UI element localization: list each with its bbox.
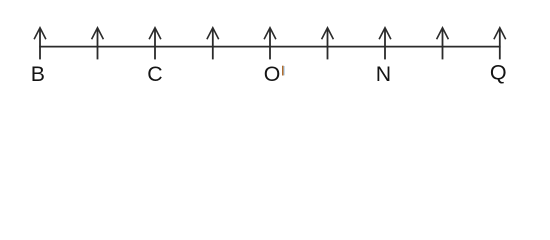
cursor tick after O [282,66,284,76]
arrow 3 (at C) [149,28,161,60]
number line [39,46,500,48]
arrow 5 (at O) [264,28,276,60]
arrow 6 [322,28,334,60]
svg-text:C: C [147,62,162,86]
arrow 8 [437,28,449,60]
svg-text:Q: Q [490,61,507,85]
arrow 1 (at B) [34,28,46,60]
arrow 4 [207,28,219,60]
arrow 7 (at N) [379,28,391,60]
arrow 2 [92,28,104,60]
svg-text:N: N [376,62,391,86]
arrow 9 (at Q) [494,28,506,60]
svg-text:B: B [31,62,45,86]
svg-text:O: O [264,62,281,86]
